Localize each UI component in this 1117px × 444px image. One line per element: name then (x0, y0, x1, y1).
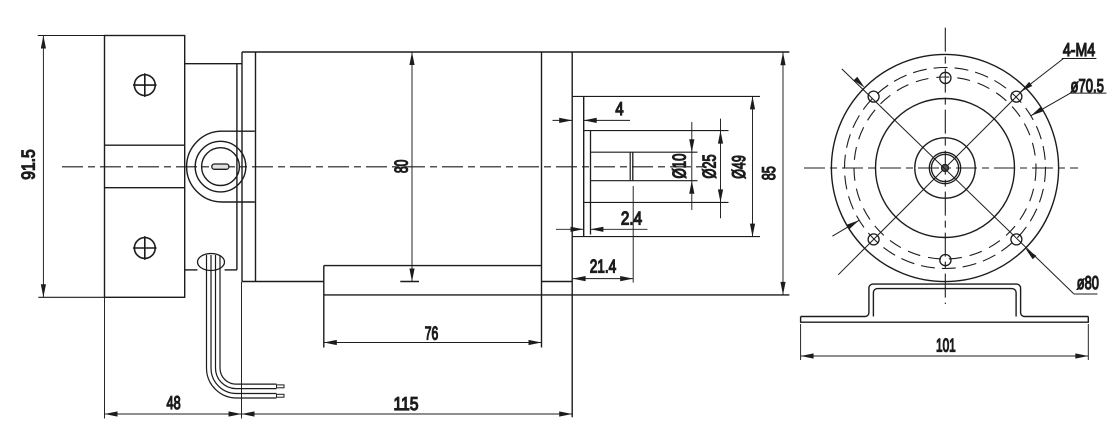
inner dashed circle (854, 77, 1036, 259)
inner circle (915, 138, 975, 198)
rear flange face (571, 52, 573, 417)
svg-text:Ø25: Ø25 (699, 154, 720, 178)
boss bottom edge extension dia49 (572, 236, 760, 238)
hole bottom (940, 255, 951, 266)
collar bottom edge extension dia25 (584, 201, 729, 203)
svg-text:ø70.5: ø70.5 (1071, 75, 1104, 96)
bolt hole SE (1011, 234, 1022, 245)
bottom edge flange and cover (324, 294, 790, 296)
hole top (940, 72, 951, 83)
dimension 4 (553, 119, 573, 121)
boss top edge extension dia49 (572, 95, 760, 97)
svg-text:2.4: 2.4 (621, 208, 642, 229)
bearing circle outer (929, 152, 960, 183)
shaft dia 10 top edge (591, 151, 698, 153)
wire lines (207, 255, 277, 398)
shaft end extension line (632, 186, 634, 283)
bolt circle dia 70.5 dashed (845, 68, 1046, 269)
shaft key line (629, 152, 631, 181)
wire tip upper (277, 385, 285, 388)
dimension 21.4 (573, 278, 634, 280)
bracket top edge extension (38, 35, 105, 37)
svg-text:115: 115 (394, 393, 419, 414)
svg-text:Ø49: Ø49 (728, 155, 749, 179)
screw hole lower (134, 238, 155, 259)
dimension dia 10 (691, 122, 693, 210)
base bracket bottom (801, 317, 1089, 323)
diagonal centerline NE-SW (838, 87, 1026, 275)
mounting plate bracket (105, 36, 185, 298)
shaft end edge (632, 152, 634, 181)
svg-text:ø80: ø80 (1077, 272, 1099, 293)
collar dia 25 (590, 131, 592, 235)
screw hole upper (134, 75, 155, 96)
dimension dia 80 diagonal (842, 69, 1074, 294)
dimension 85 (782, 52, 784, 295)
svg-text:80: 80 (391, 160, 412, 174)
wire tip lower (277, 394, 285, 397)
svg-text:48: 48 (167, 392, 181, 413)
base bracket inner profile (873, 289, 1016, 317)
bracket band upper line (105, 144, 185, 146)
top edge line body and flange (242, 51, 789, 53)
bottom extension line left (104, 297, 106, 418)
svg-text:85: 85 (758, 166, 779, 180)
label 4-M4 leader (1020, 59, 1063, 92)
bearing circle inner (931, 154, 958, 181)
svg-text:Ø10: Ø10 (669, 154, 690, 179)
motor front plate (241, 52, 243, 282)
dimension 101 (800, 324, 802, 360)
dimension 48 and 115 (105, 413, 573, 415)
svg-text:101: 101 (936, 335, 956, 356)
dimension dia 25 (720, 119, 722, 219)
flange outer circle dia 80 (831, 54, 1058, 281)
dimension dia 49 (752, 96, 754, 236)
output boss dia 49 (583, 96, 585, 236)
dimension 76 (324, 342, 542, 344)
base bracket outer profile (801, 284, 1089, 316)
bolt hole SW (868, 234, 879, 245)
bolt hole NE (1011, 91, 1022, 102)
svg-text:4: 4 (615, 98, 623, 119)
dimension 80 (411, 52, 413, 282)
bearing outer circle (195, 141, 246, 192)
boss circle dia 49 (876, 99, 1015, 238)
dimension dia 70.5 leader (832, 220, 859, 236)
motor body right edge (541, 52, 543, 348)
svg-text:91.5: 91.5 (18, 149, 39, 179)
terminal cover box (324, 265, 542, 267)
wire grommet (198, 254, 225, 271)
shaft slot capsule (212, 164, 229, 169)
bolt hole NW (868, 91, 879, 102)
dimension 91.5 (42, 36, 44, 298)
end view horizontal centerline (804, 167, 1078, 169)
bracket bottom edge extension (38, 296, 104, 298)
gearbox housing (185, 63, 242, 65)
svg-text:21.4: 21.4 (590, 255, 617, 276)
bottom extension line middle (241, 282, 243, 419)
end view vertical centerline (944, 28, 946, 304)
dimension 2.4 (556, 228, 584, 230)
shaft dia 10 bottom edge (591, 180, 698, 182)
bearing inner circle (202, 148, 240, 186)
bearing boss outline (187, 131, 255, 202)
centerline side view (62, 166, 708, 168)
collar top edge extension dia25 (584, 130, 729, 132)
bracket band lower line (105, 187, 185, 189)
motor body bottom edge (242, 281, 324, 283)
svg-text:4-M4: 4-M4 (1063, 39, 1095, 60)
svg-text:76: 76 (425, 323, 439, 344)
shaft center (942, 165, 949, 172)
